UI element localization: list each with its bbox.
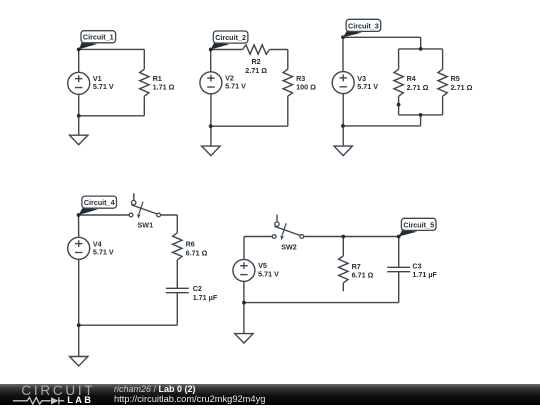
svg-text:SW1: SW1 <box>138 220 154 229</box>
svg-text:Circuit_4: Circuit_4 <box>84 198 115 207</box>
svg-text:2.71 Ω: 2.71 Ω <box>245 66 267 75</box>
svg-text:100 Ω: 100 Ω <box>296 83 316 92</box>
svg-text:5.71 V: 5.71 V <box>93 82 114 91</box>
svg-text:Circuit_3: Circuit_3 <box>348 21 379 30</box>
svg-text:5.71 V: 5.71 V <box>258 269 279 278</box>
svg-text:1.71 µF: 1.71 µF <box>412 270 437 279</box>
svg-text:Circuit_1: Circuit_1 <box>83 33 114 42</box>
svg-text:2.71 Ω: 2.71 Ω <box>407 83 429 92</box>
svg-text:SW2: SW2 <box>281 242 297 251</box>
svg-text:5.71 V: 5.71 V <box>225 82 246 91</box>
svg-text:Circuit_5: Circuit_5 <box>403 220 434 229</box>
svg-text:6.71 Ω: 6.71 Ω <box>352 271 374 280</box>
svg-text:6.71 Ω: 6.71 Ω <box>186 248 208 257</box>
svg-text:1.71 Ω: 1.71 Ω <box>153 83 175 92</box>
svg-text:1.71 µF: 1.71 µF <box>193 293 218 302</box>
svg-text:C2: C2 <box>193 284 202 293</box>
svg-text:Circuit_2: Circuit_2 <box>215 33 246 42</box>
svg-text:R2: R2 <box>251 57 260 66</box>
svg-text:5.71 V: 5.71 V <box>93 248 114 257</box>
svg-text:2.71 Ω: 2.71 Ω <box>451 83 473 92</box>
svg-text:5.71 V: 5.71 V <box>357 82 378 91</box>
